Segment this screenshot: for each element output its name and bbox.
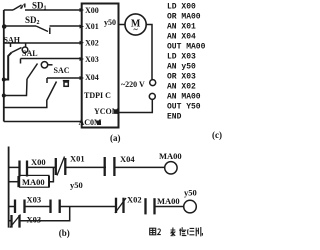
wire: [27, 166, 56, 168]
wire: [25, 206, 51, 208]
float actuator of SAC: [63, 81, 69, 87]
instruction list (c): [167, 3, 222, 141]
svg-text:SAH: SAH: [4, 36, 21, 45]
svg-text:AN y50: AN y50: [167, 63, 196, 72]
wire X04 row: [47, 77, 82, 79]
contact MA00 branch: [18, 175, 49, 187]
svg-text:X01: X01: [85, 22, 99, 31]
svg-text:X03: X03: [85, 55, 99, 64]
wire: [114, 166, 164, 168]
svg-text:y50: y50: [104, 18, 116, 27]
svg-text:X03: X03: [27, 195, 42, 205]
coil y50: [184, 200, 197, 213]
wire SAL pivot to rail: [4, 79, 27, 96]
wire riser: [49, 167, 53, 181]
wire y50 to motor: [119, 24, 126, 26]
contact X04: [105, 157, 115, 176]
svg-text:MA00: MA00: [22, 177, 45, 187]
switch SD2: [36, 26, 50, 34]
left rail: [3, 10, 5, 122]
wire rung2: [9, 206, 15, 208]
svg-text:~220 V: ~220 V: [121, 80, 145, 89]
svg-text:X03: X03: [27, 215, 42, 225]
wire SAH pivot to rail: [4, 53, 12, 80]
contact y50: [51, 200, 60, 214]
pin arrow X03: [80, 57, 85, 61]
wire branch rung2: [9, 220, 12, 222]
wire riser rung2: [20, 207, 70, 221]
terminal T1: [150, 80, 156, 86]
svg-text:X02: X02: [85, 39, 99, 48]
wire branch rung1: [9, 181, 19, 183]
svg-text:AN X04: AN X04: [167, 33, 196, 42]
wire: [155, 206, 184, 208]
svg-text:(b): (b): [59, 228, 70, 238]
svg-text:AN X02: AN X02: [167, 83, 196, 92]
svg-text:X00: X00: [85, 6, 99, 15]
wire: [4, 25, 36, 27]
pin arrow X00: [80, 8, 85, 12]
wire: [25, 9, 82, 11]
wire X02 row: [4, 42, 82, 44]
wire supply to YCOM: [118, 100, 152, 113]
svg-text:OUT Y50: OUT Y50: [167, 103, 201, 112]
wire: [60, 206, 116, 208]
svg-text:END: END: [167, 113, 182, 122]
svg-text:y50: y50: [70, 180, 83, 190]
contact X00: [20, 161, 28, 177]
pin square YCOM: [113, 109, 118, 114]
wire X03 row: [21, 58, 82, 60]
svg-text:SAC: SAC: [54, 66, 70, 75]
switch SAC: [47, 78, 57, 101]
svg-text:TDPI C: TDPI C: [84, 91, 111, 100]
pin arrow X04: [80, 76, 85, 80]
contact X02 NC: [115, 198, 126, 213]
caption 图2 水位(泵)控制 drawn as vector glyphs: [150, 227, 203, 236]
contact X01 NC: [56, 157, 66, 176]
wire: [4, 9, 13, 11]
svg-text:(a): (a): [110, 133, 121, 143]
svg-text:LD X00: LD X00: [167, 3, 196, 12]
svg-text:SD2: SD2: [25, 15, 40, 26]
wire COM bottom: [4, 121, 82, 123]
svg-text:(c): (c): [212, 130, 222, 140]
switch SAH: [11, 43, 28, 53]
svg-text:AN MA00: AN MA00: [167, 93, 201, 102]
node junction: [2, 78, 6, 82]
svg-text:X02: X02: [127, 195, 142, 205]
svg-text:X00: X00: [31, 157, 46, 167]
node X01 junction: [2, 24, 7, 29]
terminal T2: [149, 93, 155, 99]
svg-text:X04: X04: [120, 154, 135, 164]
wire motor to supply: [146, 25, 152, 80]
svg-text:MA00: MA00: [157, 196, 180, 206]
node junction: [2, 94, 6, 98]
contact MA00 rung2: [146, 198, 155, 214]
ladder diagram (b): [9, 147, 203, 239]
wire rung1: [9, 166, 20, 168]
svg-text:X01: X01: [70, 154, 85, 164]
svg-text:MA00: MA00: [159, 151, 182, 161]
motor M1: [125, 14, 146, 35]
svg-text:OUT MA00: OUT MA00: [167, 43, 206, 52]
svg-text:OR MA00: OR MA00: [167, 13, 201, 22]
pin arrow X02: [80, 41, 85, 45]
svg-text:X04: X04: [85, 73, 99, 82]
contact X03 NC branch: [10, 215, 21, 228]
switch SAL: [21, 59, 53, 80]
svg-text:AN X01: AN X01: [167, 23, 196, 32]
coil MA00: [165, 162, 177, 174]
contact X03: [15, 200, 25, 214]
wire: [50, 25, 82, 27]
PLC box U1: [82, 4, 119, 128]
svg-text:SAL: SAL: [22, 49, 38, 58]
switch SD1: [13, 3, 25, 10]
pin arrow X01: [80, 25, 85, 29]
wire: [65, 166, 106, 168]
svg-text:y50: y50: [184, 188, 197, 198]
left rail ladder: [8, 147, 10, 228]
svg-text:OR X03: OR X03: [167, 73, 196, 82]
wire SAC pivot to rail: [4, 101, 47, 108]
svg-text:LD X03: LD X03: [167, 53, 196, 62]
